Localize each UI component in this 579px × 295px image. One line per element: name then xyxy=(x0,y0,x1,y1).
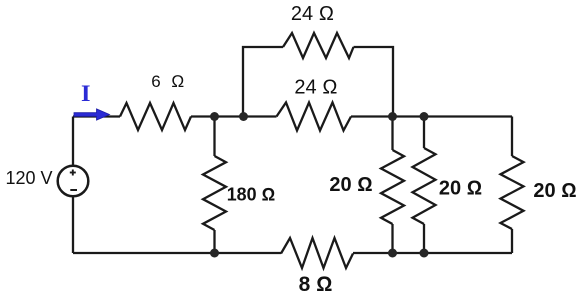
wire top branch left vertical xyxy=(243,47,283,117)
voltage source plus sign xyxy=(70,170,76,176)
svg-text:180 Ω: 180 Ω xyxy=(227,185,276,205)
wire source bottom xyxy=(72,196,74,253)
node C main-topbranch-right xyxy=(388,112,397,121)
svg-text:6 Ω: 6 Ω xyxy=(151,72,184,91)
resistor R1 6ohm xyxy=(120,103,191,130)
resistor R5 20ohm xyxy=(381,150,404,224)
node B main-topbranch-left xyxy=(239,112,248,121)
wire main left xyxy=(73,115,120,117)
wire 180ohm top stub xyxy=(213,117,215,157)
wire main right xyxy=(351,115,512,117)
svg-text:20 Ω: 20 Ω xyxy=(329,174,372,196)
svg-text:20 Ω: 20 Ω xyxy=(439,178,482,200)
resistor R2 24ohm top xyxy=(283,33,354,58)
wire right edge bottom xyxy=(511,229,513,253)
wire 20ohm-1 bottom stub xyxy=(391,224,393,253)
node G bottom-20ohm2 xyxy=(420,249,429,258)
wire top branch right vertical xyxy=(354,47,394,117)
voltage source minus sign xyxy=(70,189,77,191)
svg-text:8 Ω: 8 Ω xyxy=(299,273,333,295)
node A main-180 xyxy=(210,112,219,121)
svg-text:24 Ω: 24 Ω xyxy=(291,3,334,25)
resistor R6 20ohm xyxy=(413,148,436,224)
current arrow I xyxy=(74,109,110,120)
wire 20ohm-2 bottom stub xyxy=(423,224,425,253)
svg-text:24 Ω: 24 Ω xyxy=(294,77,337,99)
wire bottom left xyxy=(73,252,281,254)
node F bottom-20ohm1 xyxy=(388,249,397,258)
svg-text:120 V: 120 V xyxy=(5,168,52,188)
wire 180ohm bottom stub xyxy=(213,230,215,253)
resistor R8 8ohm xyxy=(281,238,353,268)
node D main-20ohm2 xyxy=(420,112,429,121)
wire source top xyxy=(72,117,74,166)
voltage source V1 circle xyxy=(58,166,89,197)
wire right edge top xyxy=(511,117,513,157)
node E bottom-180 xyxy=(210,249,219,258)
wire bottom right xyxy=(353,252,512,254)
svg-text:20 Ω: 20 Ω xyxy=(533,180,576,202)
resistor R7 20ohm right xyxy=(501,156,524,229)
wire 20ohm-1 top stub xyxy=(391,117,393,151)
wire 20ohm-2 top stub xyxy=(423,117,425,149)
resistor R3 24ohm main xyxy=(277,103,352,131)
resistor R4 180ohm xyxy=(203,156,226,230)
svg-text:I: I xyxy=(81,81,91,106)
wire main middle xyxy=(191,115,277,117)
